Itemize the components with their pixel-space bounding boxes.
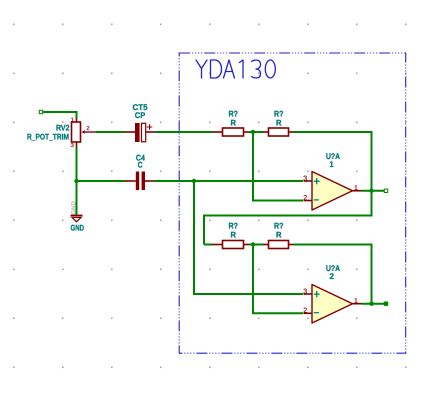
junction U1 output (369, 189, 373, 193)
svg-text:GND: GND (71, 224, 85, 233)
wire: CT5 to R1 (155, 131, 213, 133)
wire: U2 output to node (362, 303, 385, 305)
svg-text:R?: R? (274, 110, 284, 119)
svg-text:R: R (276, 231, 282, 240)
junction U2 output (369, 302, 373, 306)
junction at pot bottom / C4 (74, 179, 78, 183)
wire: junction down to U2 pin 3 (193, 181, 195, 294)
junction between R3 and R4 (251, 242, 255, 246)
wire: to U2 pin 3 horizontal (193, 293, 303, 295)
wire: junction down to GND (76, 181, 78, 215)
svg-text:R: R (231, 119, 237, 128)
svg-text:2: 2 (86, 125, 89, 132)
svg-text:GND: GND (70, 201, 77, 215)
unconnected end square U1 output (384, 189, 387, 192)
wire: junction to C4 (77, 180, 126, 182)
svg-text:R: R (276, 119, 282, 128)
wire: to R3 (204, 244, 213, 246)
svg-text:2: 2 (303, 195, 307, 202)
wire: R2 to right corner (294, 131, 372, 133)
resistor R1 (R?) (213, 128, 250, 136)
wire: junction R1/R2 down (252, 132, 254, 201)
wire: RV2 pin2 to CT5 (96, 131, 126, 133)
svg-text:3: 3 (71, 143, 74, 149)
wire: feedback row left (204, 215, 373, 217)
svg-text:1: 1 (330, 160, 334, 169)
junction between R1 and R2 (251, 130, 255, 134)
svg-text:1: 1 (354, 185, 358, 192)
wire: R3/R4 junction down (252, 245, 254, 314)
svg-text:R_POT_TRIM: R_POT_TRIM (27, 133, 69, 142)
svg-text:3: 3 (303, 288, 307, 295)
svg-text:CP: CP (135, 111, 146, 120)
svg-text:3: 3 (303, 175, 307, 182)
ground symbol GND (71, 215, 83, 221)
potentiometer RV2 (71, 117, 96, 149)
wire: down to U2 output node (371, 244, 373, 305)
op-amp U2 (U?A unit 2) (303, 285, 362, 324)
svg-text:2: 2 (303, 308, 307, 315)
svg-text:R?: R? (274, 222, 284, 231)
wire: to U2 pin 2 (252, 312, 303, 314)
svg-text:RV2: RV2 (56, 124, 70, 133)
svg-text:R?: R? (229, 110, 239, 119)
svg-text:1: 1 (354, 298, 358, 305)
capacitor C4 (125, 172, 154, 191)
wire: C4 to U1 pin 3 (154, 180, 303, 182)
wire: top stub horizontal (41, 111, 77, 113)
resistor R2 (R?) (264, 128, 294, 136)
wire: pot bottom down to junction (76, 147, 78, 182)
op-amp U1 (U?A unit 1) (303, 172, 362, 211)
svg-text:R: R (231, 231, 237, 240)
wire: R1 to R2 with junction (249, 131, 264, 133)
wire: U1 output down (371, 191, 373, 216)
junction on C4 net (192, 179, 196, 183)
svg-text:C: C (138, 161, 143, 170)
capacitor CT5 (polarized) (125, 123, 155, 142)
resistor R3 (R?) (213, 241, 250, 249)
svg-text:R?: R? (229, 222, 239, 231)
svg-text:2: 2 (330, 272, 335, 281)
svg-text:1: 1 (71, 117, 74, 123)
sheet title YDA130 (196, 60, 275, 78)
wire end square U2 output (filled) (384, 302, 387, 305)
grid dots (decorative) (13, 24, 407, 369)
wire: stub down to RV2 pin 1 (76, 111, 78, 118)
sheet box YDA130 (179, 53, 406, 353)
wire: down to R3 row (203, 215, 205, 245)
wire: to U1 pin 2 (252, 200, 303, 202)
wire: R4 right to corner (294, 244, 372, 246)
wire: vertical down to U1 output node (371, 131, 373, 191)
wire: R3 to R4 with junction (249, 244, 264, 246)
unconnected wire end square (39, 110, 42, 113)
resistor R4 (R?) (264, 241, 294, 249)
wire: U1 output to node (362, 190, 385, 192)
